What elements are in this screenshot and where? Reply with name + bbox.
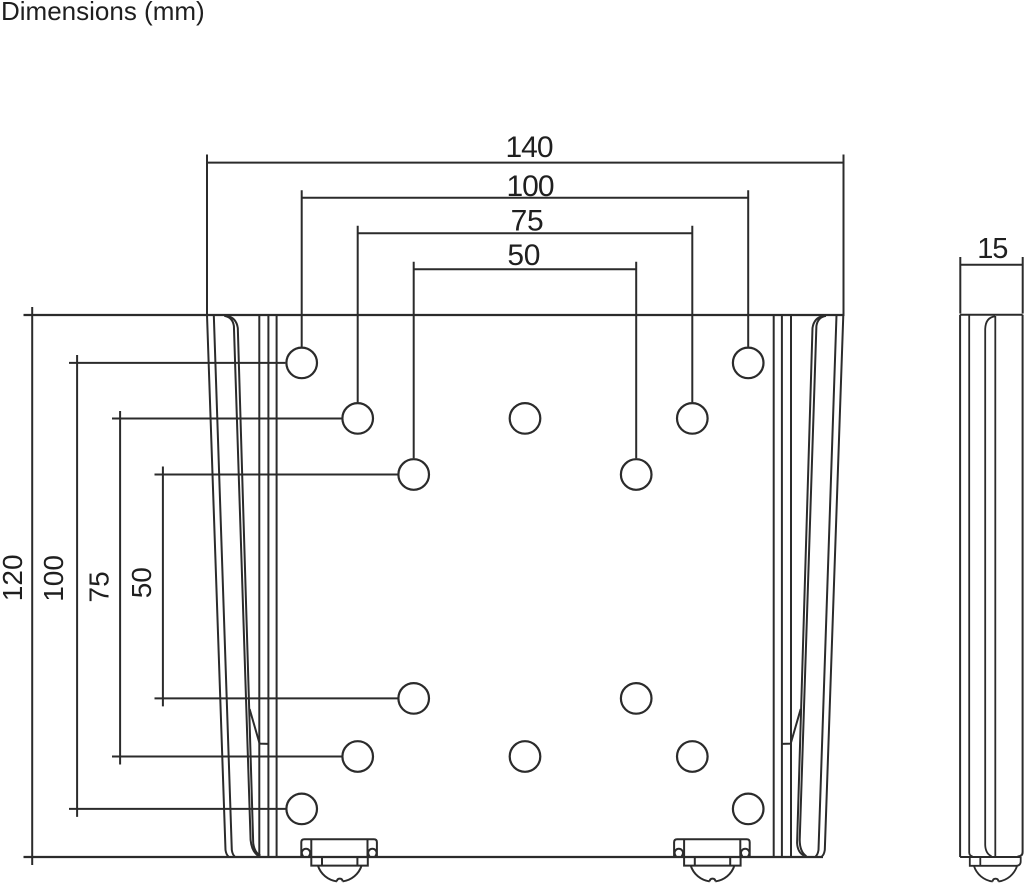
dim line 120 vertical — [31, 307, 33, 865]
hole center top — [510, 403, 541, 434]
tab2 dome notch — [710, 879, 716, 882]
dim line 75 top — [358, 232, 693, 234]
right rail flange inner line — [797, 316, 824, 856]
hole 100 bottom-left — [286, 794, 317, 825]
dim 75 right leader to hole — [691, 226, 693, 402]
tab1 left notch — [302, 849, 310, 856]
tab2 outline — [674, 839, 750, 856]
right rail outer edge — [822, 315, 844, 856]
hole 100 top-left — [286, 348, 317, 379]
dim 100 top extension to hole — [69, 362, 285, 364]
tab1 lower box inner left — [321, 857, 323, 866]
hole 100 top-right — [733, 348, 764, 379]
dim 15 left extension — [959, 257, 961, 314]
tab1 inner vertical left — [310, 839, 312, 856]
side view lower box — [970, 857, 1021, 866]
right rail flange outer line — [800, 316, 826, 856]
side view top edge — [960, 314, 1023, 316]
dim 50 top extension to hole — [155, 474, 398, 476]
left rail outer inner line — [214, 315, 235, 856]
right rail vertical line 3 — [773, 316, 775, 856]
side view lower box inner line — [979, 857, 981, 866]
svg-text:50: 50 — [126, 567, 157, 598]
svg-text:140: 140 — [505, 131, 552, 164]
svg-text:75: 75 — [511, 205, 544, 238]
dim 75 top extension to hole — [112, 418, 342, 420]
hole 100 bottom-right — [733, 794, 764, 825]
plate bottom edge with 120 extension — [24, 856, 824, 858]
side view right edge — [1018, 315, 1023, 857]
dim 75 left leader to hole — [357, 226, 359, 402]
hole 50 top-right — [621, 459, 652, 490]
dim line 100 vertical — [76, 355, 78, 817]
hole 50 bottom-left — [398, 683, 429, 714]
dim line 15 side view — [960, 264, 1022, 266]
dim line 50 vertical — [162, 467, 164, 707]
tab2 lower box — [684, 857, 741, 866]
left rail flange inner line — [227, 316, 261, 856]
svg-text:50: 50 — [507, 239, 540, 272]
right rail vertical line 2 — [781, 316, 783, 856]
tab1 lower box — [311, 857, 368, 866]
dim 15 right extension — [1022, 257, 1024, 314]
tab1 right notch — [368, 849, 376, 856]
svg-text:15: 15 — [977, 233, 1007, 265]
tab1 dome notch — [337, 879, 343, 882]
svg-text:100: 100 — [38, 555, 69, 602]
svg-text:120: 120 — [0, 554, 28, 601]
side view inner line 1 — [969, 315, 972, 856]
right rail outer inner line — [816, 315, 837, 856]
hole 50 top-left — [398, 459, 429, 490]
tab2 lower box inner right — [729, 857, 731, 866]
side view inner line 2 with curves — [985, 316, 995, 856]
dim 100 right leader to hole — [747, 190, 749, 346]
tab2 inner vertical right — [739, 839, 741, 856]
svg-text:100: 100 — [506, 170, 553, 203]
dim line 50 top — [414, 268, 637, 270]
dim 140 right extension — [843, 155, 845, 317]
tab1 outline — [301, 839, 377, 856]
left rail flange cut jog — [250, 709, 269, 744]
tab2 lower box inner left — [694, 857, 696, 866]
dim line 75 vertical — [119, 411, 121, 765]
svg-text:Dimensions (mm): Dimensions (mm) — [1, 0, 205, 26]
tab2 right notch — [741, 849, 749, 856]
hole 75 top-left — [342, 403, 373, 434]
tab2 left notch — [675, 849, 683, 856]
left rail flange outer line — [224, 316, 258, 856]
side view bottom edge — [960, 856, 1021, 858]
dim 75 bottom extension to hole — [112, 756, 342, 758]
tab2 inner vertical left — [683, 839, 685, 856]
left rail vertical line 1 — [258, 316, 260, 856]
side view dome — [974, 866, 1017, 882]
left rail vertical line 3 — [276, 316, 278, 856]
right rail flange cut jog — [782, 709, 801, 744]
right rail vertical line 1 — [790, 316, 792, 856]
dim 50 right leader to hole — [635, 262, 637, 459]
dim 50 left leader to hole — [413, 262, 415, 459]
dim 100 left leader to hole — [301, 190, 303, 346]
tab1 lower box inner right — [356, 857, 358, 866]
hole 50 bottom-right — [621, 683, 652, 714]
hole 75 bottom-right — [677, 741, 708, 772]
hole center bottom — [510, 741, 541, 772]
dim line 100 top — [302, 197, 749, 199]
dim 100 bottom extension to hole — [69, 808, 286, 810]
side view left edge — [959, 315, 961, 857]
svg-text:75: 75 — [84, 571, 115, 602]
tab1 inner vertical right — [367, 839, 369, 856]
side view dome notch — [993, 879, 999, 882]
dim 140 left extension — [206, 155, 208, 317]
plate top edge with 120 extension — [24, 314, 844, 316]
tab1 dome — [318, 866, 362, 882]
left rail outer edge — [207, 315, 229, 856]
dim 50 bottom extension to hole — [155, 697, 398, 699]
hole 75 top-right — [677, 403, 708, 434]
tab2 dome — [691, 866, 735, 882]
dim line 140 — [207, 162, 844, 164]
left rail vertical line 2 — [267, 316, 269, 856]
hole 75 bottom-left — [342, 741, 373, 772]
side view inner line 3 — [994, 316, 996, 857]
